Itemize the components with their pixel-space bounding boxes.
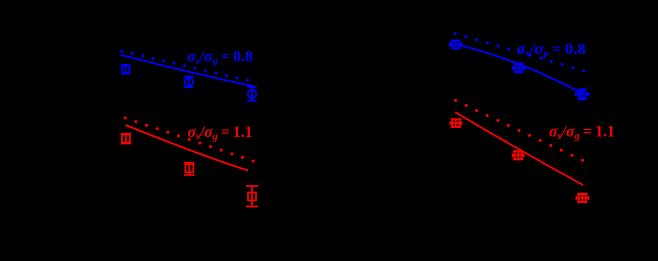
left panel blue dotted model line bbox=[120, 50, 249, 82]
right panel blue dotted model line bbox=[454, 32, 585, 72]
svg-text:σs/σp = 0.8: σs/σp = 0.8 bbox=[517, 41, 587, 60]
svg-text:σs/σg = 1.1: σs/σg = 1.1 bbox=[188, 124, 253, 143]
left panel blue solid model line bbox=[120, 55, 253, 87]
left panel blue data point 2 with error bar bbox=[184, 77, 194, 88]
right panel red solid model line bbox=[455, 112, 583, 185]
right panel blue data point 1 with error bar bbox=[450, 40, 462, 48]
left panel blue data point 1 with error bar bbox=[121, 65, 131, 74]
svg-text:σs/σg = 0.8: σs/σg = 0.8 bbox=[187, 49, 253, 68]
left panel red solid model line bbox=[126, 125, 249, 171]
left panel red dotted model line bbox=[124, 117, 255, 163]
left panel blue data point 3 with error bar bbox=[247, 87, 257, 101]
left panel red data point 3 with error bar bbox=[246, 186, 258, 207]
right panel red data point 1 with error bar bbox=[450, 119, 461, 127]
right panel red data point 2 with error bar bbox=[513, 151, 524, 159]
right panel red data point 3 with error bar bbox=[576, 194, 588, 202]
right panel blue data point 3 with error bar bbox=[576, 89, 589, 99]
left panel red data point 2 with error bar bbox=[184, 163, 194, 175]
left panel red data point 1 with error bar bbox=[121, 134, 131, 144]
right panel red dotted model line bbox=[454, 99, 584, 162]
svg-text:σs/σg = 1.1: σs/σg = 1.1 bbox=[549, 124, 615, 143]
right panel blue data point 2 with error bar bbox=[513, 63, 525, 72]
right panel blue solid model line bbox=[455, 44, 583, 94]
